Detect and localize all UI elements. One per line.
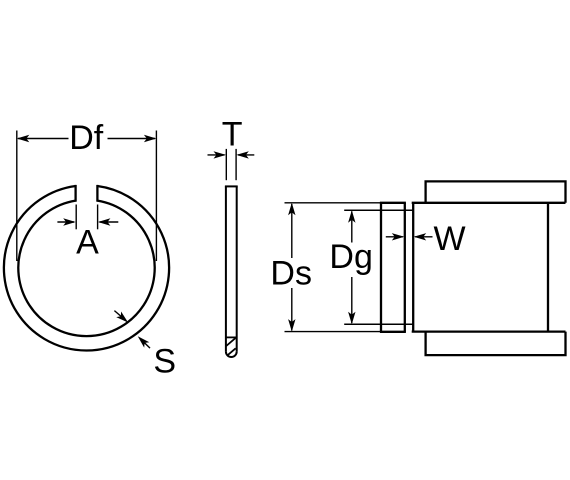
dimension T: right arrow line: [238, 154, 254, 156]
dimension S: inner arrowhead: [116, 312, 130, 326]
dimension T: left arrow line: [208, 154, 225, 156]
dimension W: left arrowhead: [392, 233, 405, 240]
dimension Ds: top arrowhead: [288, 203, 295, 216]
dimension Ds: lower dim line: [291, 288, 293, 330]
groove top line (Dg extension): [344, 209, 413, 211]
dimension Dg: upper dim line: [351, 211, 353, 242]
dimension Ds: bottom arrowhead: [288, 319, 295, 332]
dimension S: outer arrowhead: [135, 334, 149, 348]
housing body: right edge: [547, 203, 549, 332]
dimension A: left arrow line: [57, 221, 74, 223]
housing body: left edge: [412, 203, 414, 332]
dimension A: right extension line: [97, 205, 99, 230]
ring gap left end face: [74, 185, 76, 202]
dimension T: left arrowhead: [214, 151, 227, 158]
installed ring section: right edge: [404, 203, 406, 332]
housing body: top edge: [412, 202, 566, 204]
dimension Df: left arrowhead: [17, 135, 30, 142]
dimension W: right arrow line: [415, 236, 432, 238]
dimension Ds: upper dim line: [291, 204, 293, 258]
bottom flange: [426, 332, 566, 356]
dimension Df: right extension line: [155, 131, 157, 262]
svg-text:Dg: Dg: [329, 238, 372, 276]
dimension Dg: bottom arrowhead: [348, 312, 355, 325]
dimension A: right arrowhead: [98, 218, 111, 225]
svg-text:T: T: [222, 116, 243, 154]
dimension A: left arrowhead: [63, 218, 76, 225]
ring side view: section line: [226, 336, 237, 338]
top flange: [426, 181, 566, 202]
svg-text:A: A: [76, 224, 99, 262]
dimension Dg: lower dim line: [351, 277, 353, 323]
dimension A: right arrow line: [100, 221, 119, 223]
dimension Df: left dim line: [18, 138, 69, 140]
ring side view: right edge: [236, 186, 238, 351]
dimension T: right extension line: [235, 149, 237, 180]
dimension Df: right dim line: [108, 138, 156, 140]
groove bottom line (Dg extension): [344, 323, 413, 325]
ring side view: left edge: [225, 186, 227, 351]
svg-text:Df: Df: [69, 119, 104, 157]
dimension Ds: bottom extension line: [285, 331, 382, 333]
svg-text:W: W: [434, 220, 466, 258]
svg-text:S: S: [153, 343, 176, 381]
ring side view: rounded bottom: [226, 352, 237, 357]
retaining ring front view: outer arc: [4, 186, 169, 350]
dimension T: right arrowhead: [236, 151, 249, 158]
dimension W: right arrowhead: [414, 233, 427, 240]
dimension Dg: top arrowhead: [348, 210, 355, 223]
dimension Df: right arrowhead: [144, 135, 157, 142]
retaining ring front view: inner arc: [18, 201, 154, 337]
svg-text:Ds: Ds: [270, 255, 312, 293]
ring side view: top edge: [225, 185, 238, 187]
dimension Df: left extension line: [16, 131, 18, 262]
housing body: bottom edge: [412, 330, 566, 332]
installed ring section: top edge: [380, 202, 406, 204]
dimension T: left extension line: [225, 149, 227, 180]
dimension Ds: top extension line: [285, 202, 382, 204]
dimension S: inner arrow line: [114, 311, 126, 321]
ring gap right end face: [96, 185, 98, 202]
dimension W: left arrow line: [386, 236, 403, 238]
ring side view: hatch line 2: [227, 348, 235, 355]
ring side view: hatch line 1: [226, 338, 235, 346]
installed ring section: left edge: [380, 203, 382, 332]
dimension A: left extension line: [75, 205, 77, 230]
dimension S: outer arrow line: [140, 338, 150, 348]
installed ring section: bottom edge: [380, 331, 406, 333]
